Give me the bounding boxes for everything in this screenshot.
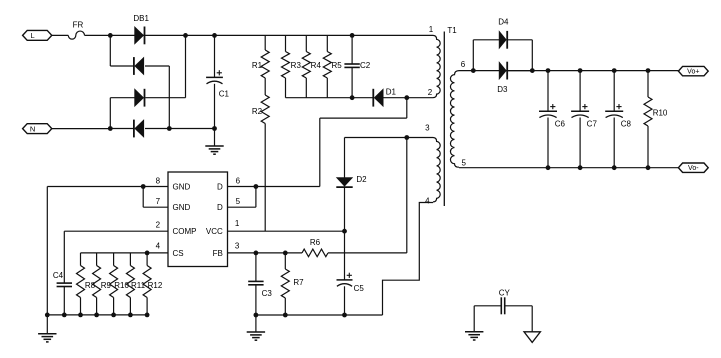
node primary pin2 [404, 95, 409, 100]
svg-text:D1: D1 [386, 87, 397, 96]
wire mid ground bus [256, 314, 383, 316]
svg-text:FR: FR [73, 20, 84, 29]
svg-text:Vo+: Vo+ [687, 69, 699, 76]
resistor R10K [110, 253, 130, 315]
svg-text:R3: R3 [291, 61, 302, 70]
svg-text:C4: C4 [53, 271, 64, 280]
node C7 bot [578, 165, 583, 170]
svg-text:T1: T1 [447, 26, 457, 35]
pin 6 D [217, 176, 241, 191]
resistor R12 [143, 253, 163, 315]
node VCC-D2 [342, 229, 347, 234]
svg-text:C2: C2 [360, 61, 371, 70]
resistor R11 [126, 253, 145, 315]
svg-text:CY: CY [499, 288, 511, 297]
ground primary [205, 129, 223, 155]
transformer T1 aux winding [425, 124, 440, 206]
node pins7-8 [141, 184, 146, 189]
resistor R1 [252, 35, 269, 78]
node C1 top [212, 33, 217, 38]
wire left ground bus [47, 314, 147, 316]
node bus-GND [45, 313, 50, 318]
capacitor C3 [248, 253, 272, 315]
node bus-R10 [111, 313, 116, 318]
wire bridge row3 [110, 97, 185, 99]
svg-text:R10: R10 [114, 281, 129, 290]
node bus-R8 [78, 313, 83, 318]
ground CY right chassis [524, 306, 540, 343]
node L-bridge [108, 33, 113, 38]
node bridge-plus [183, 33, 188, 38]
svg-text:GND: GND [173, 182, 191, 191]
svg-text:DB1: DB1 [133, 14, 149, 23]
svg-text:R11: R11 [131, 281, 146, 290]
svg-text:5: 5 [461, 159, 466, 168]
wire D2 cathode down [344, 187, 346, 280]
wire bottom row [110, 128, 214, 130]
wire D2 anode up [344, 138, 346, 178]
svg-text:6: 6 [461, 60, 466, 69]
wire pin1 VCC row [228, 230, 345, 232]
wire pin6 D row [228, 186, 320, 188]
wire R1-R2 [264, 78, 266, 95]
diode D3 [497, 62, 508, 94]
svg-text:3: 3 [425, 124, 430, 133]
resistor R9 [93, 253, 112, 315]
op-amp U1 body [168, 172, 228, 267]
wire pin5 loop [228, 187, 256, 208]
resistor R3 [282, 35, 302, 97]
node C7 top [578, 68, 583, 73]
ground CY left [465, 306, 483, 340]
svg-text:D4: D4 [498, 18, 509, 27]
pin 2 COMP [156, 220, 197, 236]
pin 1 VCC [206, 219, 240, 236]
pin 5 D [217, 197, 241, 212]
ground mid bus [247, 315, 265, 340]
svg-text:L: L [31, 31, 35, 40]
wire FR to bridge [85, 34, 111, 36]
node pin3-FB [404, 135, 409, 140]
resistor R8 [77, 253, 96, 315]
capacitor CY [474, 288, 532, 314]
node sec-D branch [471, 68, 476, 73]
wire pin2 to D-net [320, 98, 407, 187]
transformer T1 label [447, 26, 457, 35]
svg-text:1: 1 [235, 219, 240, 228]
capacitor C1 [206, 35, 229, 128]
resistor R4 [302, 35, 321, 97]
node FB-R7 [283, 251, 288, 256]
wire pin7 loop [143, 187, 168, 208]
svg-text:R10: R10 [653, 109, 668, 118]
node C6 top [546, 68, 551, 73]
node N-bridge [108, 126, 113, 131]
svg-text:4: 4 [425, 196, 430, 205]
svg-text:FB: FB [213, 249, 223, 258]
svg-text:D2: D2 [356, 175, 367, 184]
pin 4 CS [156, 242, 184, 258]
node FB-C3 [254, 251, 259, 256]
svg-text:4: 4 [156, 242, 161, 251]
transformer T1 secondary winding [450, 60, 466, 168]
svg-text:5: 5 [236, 197, 241, 206]
wire N to bridge [52, 128, 111, 130]
svg-text:D: D [217, 203, 223, 212]
node bus-R12 [145, 313, 150, 318]
diode D4 [498, 18, 509, 49]
diode DB1-d [134, 120, 144, 138]
node C2 top [350, 33, 355, 38]
node CS-R12 [145, 251, 150, 256]
resistor R7 [281, 253, 304, 315]
svg-text:R6: R6 [310, 238, 321, 247]
node bus-R11 [128, 313, 133, 318]
svg-text:8: 8 [156, 176, 161, 185]
node C8 top [612, 68, 617, 73]
wire FB riser [406, 138, 408, 253]
svg-text:C5: C5 [354, 284, 365, 293]
diode DB1-b [134, 57, 144, 75]
capacitor C8 [605, 71, 631, 168]
svg-text:GND: GND [173, 203, 191, 212]
svg-text:Vo-: Vo- [688, 165, 699, 172]
wire pin4 CS row [81, 252, 169, 254]
resistor R5 [323, 35, 342, 97]
wire D1 to pin2 [383, 97, 433, 99]
wire bridge right vertical D2b [168, 66, 170, 129]
svg-text:VCC: VCC [206, 227, 223, 236]
ground left bus [38, 315, 56, 342]
wire bridge left vertical upper [109, 35, 111, 66]
capacitor C7 [571, 71, 597, 168]
node C5 bus [342, 313, 347, 318]
svg-text:6: 6 [236, 176, 241, 185]
svg-text:C7: C7 [587, 119, 598, 128]
node C1 bottom [212, 126, 217, 131]
resistor R6 [302, 238, 328, 256]
svg-text:2: 2 [156, 220, 161, 229]
wire sec pin5 row [459, 167, 678, 169]
node bus-C4 [62, 313, 67, 318]
wire D3 gap [508, 70, 532, 72]
capacitor C4 [53, 231, 72, 315]
wire pin8 row [47, 186, 168, 188]
diode DB1-c [135, 89, 145, 107]
fuse FR [68, 20, 84, 39]
node bus-R7 [283, 313, 288, 318]
svg-text:CS: CS [173, 249, 184, 258]
node bus-C3 [254, 313, 259, 318]
svg-text:R9: R9 [101, 281, 112, 290]
capacitor C6 [539, 71, 566, 168]
node R10 top [646, 68, 651, 73]
svg-text:7: 7 [156, 197, 161, 206]
terminal Vo- [678, 163, 708, 172]
svg-text:2: 2 [428, 88, 433, 97]
svg-text:C1: C1 [219, 90, 230, 99]
node R10 bot [646, 165, 651, 170]
resistor R2 [252, 95, 269, 124]
capacitor C2 [344, 35, 370, 97]
svg-text:R4: R4 [311, 61, 322, 70]
svg-text:COMP: COMP [173, 227, 197, 236]
svg-text:R7: R7 [293, 278, 304, 287]
svg-text:C6: C6 [555, 119, 566, 128]
wire L to FR [52, 34, 69, 36]
terminal L [23, 30, 52, 40]
svg-text:R2: R2 [252, 107, 263, 116]
transformer core [443, 32, 445, 207]
resistor R10 [644, 71, 668, 168]
node D3-D4 join [530, 68, 535, 73]
svg-text:R5: R5 [331, 61, 342, 70]
wire snubber bus [286, 97, 374, 99]
wire aux pin4 staircase [383, 203, 434, 316]
wire sec pin6 row [459, 70, 678, 72]
svg-text:D: D [217, 182, 223, 191]
terminal N [23, 124, 52, 134]
wire aux pin3 row [345, 137, 434, 139]
node pins5-6 [254, 184, 259, 189]
svg-text:C3: C3 [262, 289, 273, 298]
svg-text:R1: R1 [252, 61, 263, 70]
svg-text:C8: C8 [621, 119, 632, 128]
terminal Vo+ [678, 66, 708, 75]
wire GND drop [46, 187, 48, 315]
wire R6 to riser [328, 252, 407, 254]
wire D4 branch [473, 40, 532, 71]
wire bridge row2 [110, 65, 169, 67]
wire top rail [110, 34, 433, 36]
node bus-R9 [94, 313, 99, 318]
svg-text:D3: D3 [497, 85, 508, 94]
svg-text:3: 3 [235, 242, 240, 251]
node C8 bot [612, 165, 617, 170]
svg-text:N: N [30, 124, 35, 133]
wire bridge right vertical D2c [185, 35, 187, 97]
svg-text:1: 1 [429, 25, 434, 34]
node snubber-C2 [350, 95, 355, 100]
diode DB1-a [135, 27, 145, 45]
pin 7 GND [156, 197, 191, 212]
diode D2 [336, 175, 367, 187]
node C6 bot [546, 165, 551, 170]
node bridge-minus [167, 126, 172, 131]
wire bridge left vertical lower [109, 98, 111, 129]
transformer T1 primary winding [428, 25, 440, 98]
capacitor C5 [337, 273, 365, 315]
diode D1 [373, 87, 396, 106]
wire R2 to VCC row [264, 124, 266, 232]
wire pin3 FB row [228, 252, 303, 254]
bridge rectifier DB1 label [133, 14, 149, 23]
wire pin2 COMP row [64, 230, 168, 232]
pin 3 FB [213, 242, 240, 258]
pin 8 GND [156, 176, 191, 191]
svg-text:R12: R12 [148, 281, 163, 290]
